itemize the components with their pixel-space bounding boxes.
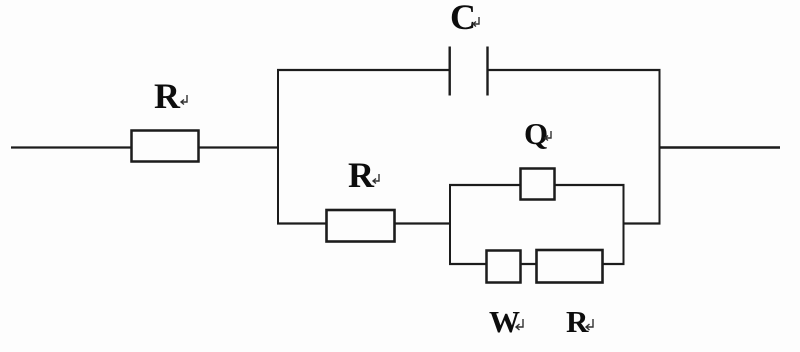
subnetwork right vertical wire xyxy=(623,184,625,265)
wire output right xyxy=(659,146,780,148)
transistor Q body xyxy=(521,169,555,200)
node branch vertical wire xyxy=(277,69,279,225)
svg-text:Q: Q xyxy=(524,116,548,151)
svg-text:C: C xyxy=(450,0,476,37)
return mark after Q xyxy=(545,131,551,141)
wire R2 to subnetwork xyxy=(394,222,451,224)
subnetwork top wire left of Q xyxy=(449,184,521,186)
capacitor C left plate xyxy=(449,47,451,96)
wire top branch right xyxy=(487,69,661,71)
subnetwork left vertical wire xyxy=(449,184,451,265)
resistor R1 body xyxy=(132,131,199,162)
wire bottom branch left xyxy=(277,222,327,224)
subnetwork bottom wire right of R3 xyxy=(602,263,625,265)
subnetwork top wire right of Q xyxy=(554,184,625,186)
wire input left xyxy=(11,146,132,148)
capacitor C right plate xyxy=(486,47,488,96)
return mark after R2 xyxy=(373,174,379,184)
svg-text:R: R xyxy=(566,304,589,339)
resistor R2 body xyxy=(327,210,395,242)
svg-text:R: R xyxy=(154,76,181,116)
wire top branch left xyxy=(277,69,450,71)
subnetwork bottom wire left of W xyxy=(449,263,487,265)
wire R1 to branch node xyxy=(198,146,279,148)
wire right vertical xyxy=(659,69,661,225)
wire between W and R3 xyxy=(520,263,537,265)
resistor R3 body xyxy=(537,250,603,283)
return mark after C xyxy=(473,17,479,27)
wire subnetwork to right vertical xyxy=(623,222,661,224)
svg-text:R: R xyxy=(348,155,375,195)
return mark after W xyxy=(516,319,523,330)
return mark after R3 xyxy=(586,319,593,330)
svg-text:W: W xyxy=(489,304,520,339)
potentiometer W body xyxy=(487,251,521,283)
return mark after R1 xyxy=(181,95,187,105)
